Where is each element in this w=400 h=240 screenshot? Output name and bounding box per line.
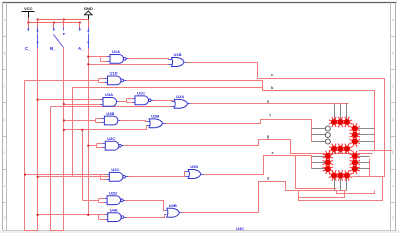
svg-text:U1A: U1A [112, 49, 120, 54]
svg-text:U3D: U3D [190, 164, 198, 169]
svg-text:U1B: U1B [174, 52, 182, 57]
svg-text:F: F [4, 185, 6, 189]
svg-text:GND: GND [84, 6, 93, 11]
svg-text:U1C: U1C [137, 91, 145, 96]
svg-text:U3B: U3B [106, 111, 114, 116]
svg-text:U2C: U2C [111, 167, 119, 172]
svg-text:U2B: U2B [151, 114, 159, 119]
svg-text:B: B [4, 51, 6, 55]
svg-text:U3C: U3C [107, 136, 115, 141]
svg-text:VCC: VCC [24, 6, 33, 11]
svg-text:U1D: U1D [110, 71, 118, 76]
svg-text:U4A: U4A [110, 207, 118, 212]
svg-text:U4C: U4C [236, 226, 244, 231]
svg-text:F: F [392, 185, 394, 189]
svg-text:C_: C_ [25, 46, 31, 51]
svg-text:c: c [271, 73, 273, 77]
svg-text:e: e [272, 151, 274, 155]
svg-text:U3A: U3A [105, 92, 113, 97]
svg-text:U2D: U2D [109, 191, 117, 196]
svg-text:B: B [392, 51, 394, 55]
svg-text:E: E [4, 151, 6, 155]
svg-text:A_: A_ [78, 46, 84, 51]
svg-text:B_: B_ [50, 46, 56, 51]
svg-text:U4B: U4B [169, 203, 177, 208]
svg-text:U2A: U2A [176, 94, 184, 99]
svg-text:E: E [392, 151, 394, 155]
